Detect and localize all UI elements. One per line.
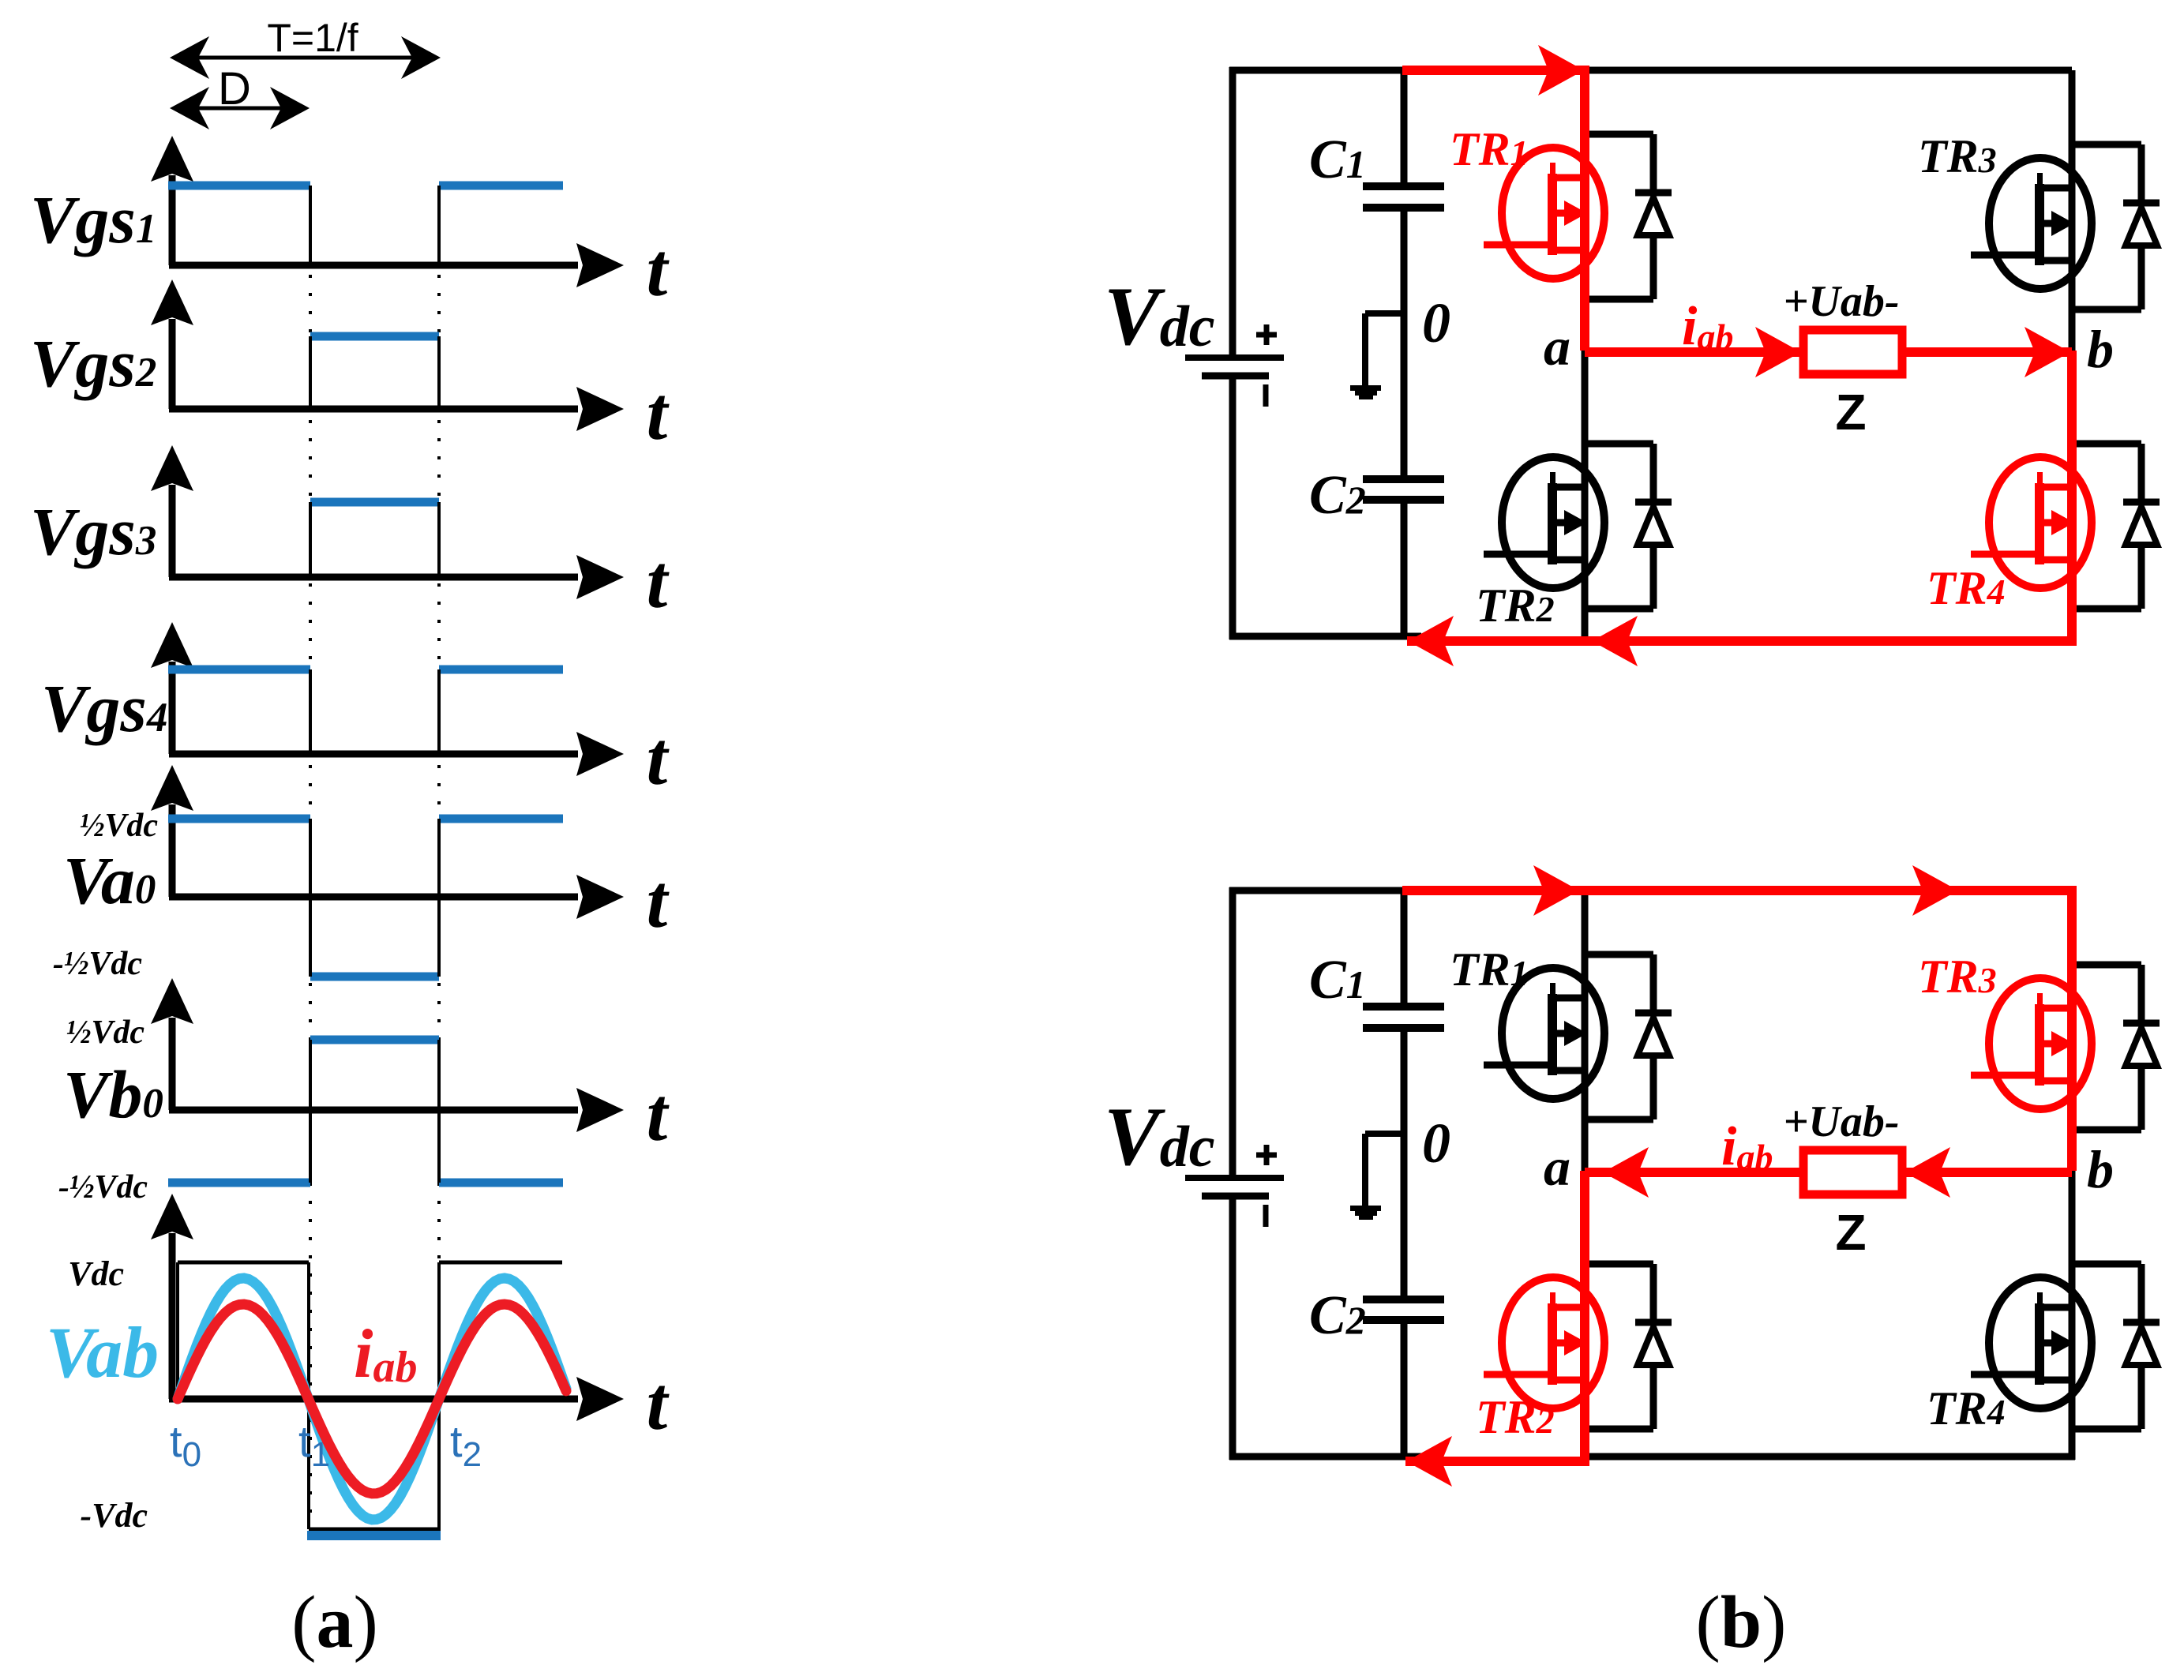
svg-text:+Uab-: +Uab-	[1784, 277, 1900, 326]
svg-text:a: a	[1544, 317, 1570, 377]
svg-text:Z: Z	[1835, 384, 1866, 441]
svg-text:0: 0	[1422, 291, 1450, 354]
svg-text:Vab: Vab	[46, 1312, 159, 1393]
svg-text:-Vdc: -Vdc	[80, 1496, 148, 1535]
svg-text:a: a	[1544, 1137, 1570, 1197]
svg-text:-½Vdc: -½Vdc	[58, 1169, 148, 1206]
svg-text:b: b	[2087, 1139, 2114, 1199]
svg-text:½Vdc: ½Vdc	[66, 1014, 145, 1051]
svg-text:T=1/f: T=1/f	[267, 16, 358, 60]
svg-text:t: t	[647, 1072, 670, 1157]
svg-text:+Uab-: +Uab-	[1784, 1097, 1900, 1146]
svg-text:(b): (b)	[1696, 1581, 1787, 1663]
svg-text:½Vdc: ½Vdc	[80, 808, 159, 844]
svg-text:0: 0	[1422, 1112, 1450, 1175]
svg-text:t: t	[647, 371, 670, 456]
svg-text:t: t	[647, 539, 670, 624]
svg-text:t: t	[647, 227, 670, 312]
svg-text:Vdc: Vdc	[68, 1254, 124, 1293]
svg-text:Z: Z	[1835, 1204, 1866, 1261]
svg-text:(a): (a)	[291, 1581, 378, 1663]
svg-text:t: t	[647, 1361, 670, 1446]
svg-text:D: D	[218, 63, 251, 114]
svg-text:t: t	[647, 716, 670, 801]
svg-text:t: t	[647, 859, 670, 943]
svg-text:-½Vdc: -½Vdc	[53, 946, 143, 982]
svg-text:b: b	[2087, 319, 2114, 379]
